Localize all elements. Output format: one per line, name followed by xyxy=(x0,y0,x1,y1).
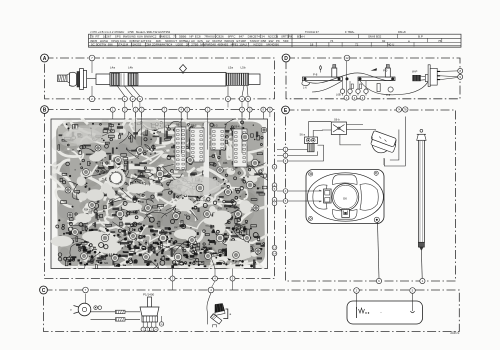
svg-text:C54: C54 xyxy=(231,170,236,172)
svg-text:G: G xyxy=(161,323,163,326)
svg-text:L4a: L4a xyxy=(110,66,115,70)
svg-text:C47: C47 xyxy=(70,150,75,152)
svg-text:TOUCH 37: TOUCH 37 xyxy=(305,30,319,34)
svg-text:C-8: C-8 xyxy=(386,93,391,97)
svg-text:7A: 7A xyxy=(397,109,400,112)
svg-text:C42: C42 xyxy=(228,207,233,209)
svg-text:DM+8: DM+8 xyxy=(398,30,406,34)
svg-text:R37: R37 xyxy=(203,200,208,202)
svg-text:C27: C27 xyxy=(192,244,197,246)
svg-text:R59: R59 xyxy=(218,209,223,211)
svg-text:W-P: W-P xyxy=(412,70,418,74)
svg-text:L5a: L5a xyxy=(228,66,233,70)
svg-text:S6-a: S6-a xyxy=(300,133,306,137)
svg-text:J 370 +4 B 1 G 2.2 4700AU 1: J 370 +4 B 1 G 2.2 4700AU 1798 Model L 9… xyxy=(90,30,171,34)
svg-text:R42: R42 xyxy=(148,247,153,249)
svg-text:··: ·· xyxy=(380,311,382,315)
svg-text:92: 92 xyxy=(382,39,386,43)
svg-text:L5b: L5b xyxy=(241,66,246,70)
svg-text:C36: C36 xyxy=(87,248,92,250)
svg-text:S21: S21 xyxy=(104,263,109,265)
svg-text:S18: S18 xyxy=(225,182,230,184)
svg-text:S54: S54 xyxy=(143,241,148,243)
svg-text:74: 74 xyxy=(330,39,334,43)
svg-text:S6-b: S6-b xyxy=(334,118,340,122)
svg-text:12: 12 xyxy=(345,56,349,60)
svg-text:P1/1400: P1/1400 xyxy=(143,293,155,297)
svg-text:C11: C11 xyxy=(193,256,198,258)
svg-text:S6-4: S6-4 xyxy=(234,125,240,129)
svg-text:C60: C60 xyxy=(88,212,93,214)
svg-text:L6B: L6B xyxy=(336,93,341,97)
svg-text:S58: S58 xyxy=(144,151,149,153)
svg-text:SM-8 B32: SM-8 B32 xyxy=(368,35,382,39)
svg-text:L4b: L4b xyxy=(128,66,133,70)
svg-text:F 78M+: F 78M+ xyxy=(345,30,355,34)
svg-text:S6-3: S6-3 xyxy=(212,124,218,128)
svg-text:B: B xyxy=(43,107,47,113)
svg-text:S40: S40 xyxy=(241,231,246,233)
svg-text:D: D xyxy=(284,56,288,62)
svg-text:7B: 7B xyxy=(404,110,407,112)
svg-text:C28: C28 xyxy=(67,223,72,225)
svg-text:C: C xyxy=(42,288,46,294)
svg-text:R47: R47 xyxy=(174,228,179,230)
svg-text:76: 76 xyxy=(438,39,442,43)
svg-text:R35: R35 xyxy=(235,263,240,265)
svg-text:3GB 6: 3GB 6 xyxy=(450,331,460,335)
svg-text:S14: S14 xyxy=(192,174,197,176)
svg-text:B.P: B.P xyxy=(418,35,423,39)
svg-text:R36: R36 xyxy=(223,163,228,165)
svg-text:S6-2: S6-2 xyxy=(191,124,197,128)
svg-text:A: A xyxy=(43,56,47,62)
svg-text:S24: S24 xyxy=(143,135,148,137)
svg-text:R31: R31 xyxy=(137,182,142,184)
svg-text:S21: S21 xyxy=(103,173,108,175)
svg-text:GK: GK xyxy=(343,197,347,201)
svg-text:P-0: P-0 xyxy=(383,69,388,73)
svg-text:L-6: L-6 xyxy=(303,86,307,90)
svg-text:P-8: P-8 xyxy=(313,73,318,77)
svg-text:S49: S49 xyxy=(146,214,151,216)
svg-text:5DF: 5DF xyxy=(283,39,289,43)
svg-text:R60: R60 xyxy=(125,246,130,248)
svg-text:C40: C40 xyxy=(140,202,145,204)
